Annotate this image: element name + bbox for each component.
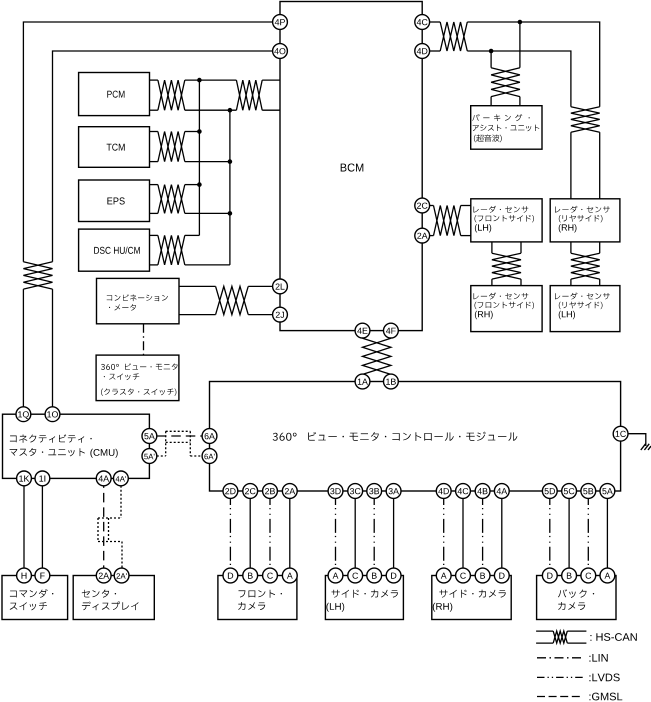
wire meter to 2J xyxy=(179,314,272,316)
wire 4D to right bus xyxy=(430,51,571,107)
box BCM xyxy=(280,2,422,331)
legend LIN symbol xyxy=(537,657,583,659)
box TCM xyxy=(79,127,150,168)
connector D back camera xyxy=(542,568,557,583)
connector 2L xyxy=(273,279,288,294)
connector 3B module xyxy=(367,484,382,499)
box combination meter xyxy=(97,278,180,323)
connector 4E xyxy=(355,323,370,338)
wire 4P branch lower xyxy=(22,289,24,414)
wire 2A to radar front LH xyxy=(430,235,471,237)
connector C side camera LH xyxy=(348,568,363,583)
connector B front camera xyxy=(243,568,258,583)
connector D side camera LH xyxy=(386,568,401,583)
connector 4A' CMU xyxy=(114,471,129,486)
connector H xyxy=(17,568,32,583)
wire TCM CAN-H xyxy=(150,131,200,133)
wire 1K to H xyxy=(23,478,25,575)
connector 4C module xyxy=(456,484,471,499)
box back camera xyxy=(537,576,616,620)
wire 4C to right bus xyxy=(430,22,600,107)
connector 4A CMU xyxy=(96,471,111,486)
connector 1O xyxy=(45,407,60,422)
legend LIN label xyxy=(589,654,607,662)
box radar sensor front side LH xyxy=(471,199,542,242)
wire 5A to back camera pin A (video/power) xyxy=(606,491,608,576)
wire EPS CAN-L xyxy=(150,212,230,214)
twisted pair radar front LH-RH xyxy=(492,253,521,279)
connector 2A module xyxy=(282,484,297,499)
wire 4C to side camera RH pin C (video/power) xyxy=(462,491,464,576)
wire 5C to back camera pin B (video/power) xyxy=(568,491,570,576)
wire EPS CAN-H xyxy=(150,184,200,186)
box radar sensor front side RH xyxy=(471,286,542,332)
connector 2C module xyxy=(243,484,258,499)
wire 1I to F xyxy=(41,478,43,575)
connector 4P xyxy=(273,15,288,30)
connector 1B xyxy=(384,374,399,389)
connector 2C BCM xyxy=(415,198,430,213)
twisted pair parking assist xyxy=(491,68,520,97)
wire meter to 2L xyxy=(179,285,272,287)
shield of GMSL CMU-display xyxy=(98,486,122,568)
connector C front camera xyxy=(263,568,278,583)
wire radar front pair xyxy=(492,242,521,286)
connector 5A module xyxy=(600,484,615,499)
legend HS-CAN symbol xyxy=(536,631,586,643)
wire 2B to front camera pin C (LVDS) xyxy=(269,491,271,576)
wire PCM CAN-L xyxy=(150,109,281,111)
connector B side camera RH xyxy=(475,568,490,583)
wire 2C to radar front LH xyxy=(430,205,471,207)
wire 1C to ground xyxy=(628,434,646,446)
box 360 view monitor control module xyxy=(210,382,621,492)
box 360 view monitor switch (cluster switch) xyxy=(96,355,179,401)
wire 5B to back camera pin C (LVDS) xyxy=(587,491,589,576)
wire CAN-L bus vertical xyxy=(229,110,231,265)
connector B back camera xyxy=(562,568,577,583)
connector C back camera xyxy=(581,568,596,583)
box parking assist unit (ultrasonic) xyxy=(471,106,542,150)
legend GMSL symbol xyxy=(537,696,583,698)
node EPS CAN-L junction xyxy=(228,211,233,216)
wire 4A to side camera RH pin D (video/power) xyxy=(501,491,503,576)
wire parking assist stubs xyxy=(491,97,520,106)
box DSC HU/CM xyxy=(79,229,150,271)
connector 3A module xyxy=(386,484,401,499)
wire LIN meter to cluster switch xyxy=(143,324,145,355)
connector 4A module xyxy=(494,484,509,499)
connector 4C xyxy=(415,15,430,30)
node TCM CAN-H junction xyxy=(197,129,202,134)
wire DSC CAN-H xyxy=(150,234,200,236)
connector A side camera RH xyxy=(436,568,451,583)
box center display xyxy=(73,576,154,620)
connector A back camera xyxy=(600,568,615,583)
wire GMSL 4A to 2A xyxy=(103,478,105,575)
wire 3B to side camera LH pin B (LVDS) xyxy=(373,491,375,576)
twisted pair BCM to module xyxy=(363,338,391,374)
wire CAN-H bus vertical xyxy=(198,80,200,235)
twisted pair 4C/4D xyxy=(440,22,467,51)
connector 1Q xyxy=(16,407,31,422)
legend HS-CAN label xyxy=(590,633,636,641)
node parking branch upper xyxy=(518,20,523,25)
box EPS xyxy=(79,180,150,222)
box side camera RH xyxy=(432,576,511,620)
connector B side camera LH xyxy=(367,568,382,583)
wire 4D to side camera RH pin A (LVDS) xyxy=(443,491,445,576)
box front camera xyxy=(218,576,297,620)
wire 2D to front camera pin D (LVDS) xyxy=(229,491,231,576)
wire to radar rear RH xyxy=(571,132,600,199)
connector 5D module xyxy=(542,484,557,499)
shield of GMSL CMU-module xyxy=(157,431,202,456)
connector 2D module xyxy=(223,484,238,499)
connector 4F xyxy=(384,323,399,338)
wire 2A to front camera pin A (video/power) xyxy=(289,491,291,576)
connector D front camera xyxy=(223,568,238,583)
wire parking assist branch A xyxy=(519,22,521,68)
connector 4D xyxy=(415,44,430,59)
connector 5C module xyxy=(562,484,577,499)
twisted pair combination meter xyxy=(216,286,249,314)
connector 4B module xyxy=(475,484,490,499)
twisted pair right down to radar rear RH xyxy=(571,107,600,133)
connector 5A CMU xyxy=(142,429,157,444)
twisted pair PCM to BCM xyxy=(236,80,262,110)
wire radar rear pair xyxy=(571,242,600,286)
wire 4O to CAN bus left top xyxy=(53,51,273,262)
node PCM CAN-H junction xyxy=(197,78,202,83)
connector 6A' module xyxy=(202,449,217,464)
wire 3D to side camera LH pin A (LVDS) xyxy=(335,491,337,576)
box radar sensor rear side RH xyxy=(550,199,620,242)
box CMU connectivity master unit xyxy=(3,414,150,478)
connector 5A' CMU xyxy=(142,449,157,464)
connector A side camera LH xyxy=(328,568,343,583)
twisted pair TCM xyxy=(158,132,185,162)
box PCM xyxy=(79,73,150,116)
wire 5D to back camera pin D (LVDS) xyxy=(549,491,551,576)
connector F xyxy=(35,568,50,583)
node PCM CAN-L junction xyxy=(228,108,233,113)
connector 4O xyxy=(273,44,288,59)
connector 4D module xyxy=(436,484,451,499)
connector D side camera RH xyxy=(494,568,509,583)
box side camera LH xyxy=(325,576,403,620)
connector 2A' display xyxy=(114,568,129,583)
connector C side camera RH xyxy=(456,568,471,583)
wire GMSL 5A to 6A xyxy=(157,435,202,437)
box commander switch xyxy=(2,576,68,620)
twisted pair radar rear RH-LH xyxy=(571,253,600,279)
node TCM CAN-L junction xyxy=(228,159,233,164)
connector 2B module xyxy=(263,484,278,499)
wire TCM CAN-L xyxy=(150,161,230,163)
wire 4B to side camera RH pin B (LVDS) xyxy=(482,491,484,576)
twisted pair PCM xyxy=(158,80,185,110)
connector 5B module xyxy=(581,484,596,499)
legend LVDS label xyxy=(589,674,619,682)
twisted pair HS-CAN left column xyxy=(23,262,52,289)
twisted pair EPS xyxy=(158,185,185,214)
connector 3C module xyxy=(348,484,363,499)
twisted pair DSC xyxy=(158,235,185,265)
connector 1A xyxy=(355,374,370,389)
ground symbol xyxy=(641,444,651,450)
connector 2A BCM xyxy=(415,228,430,243)
wire 2C to front camera pin B (video/power) xyxy=(249,491,251,576)
wire 4O branch lower xyxy=(52,289,54,414)
connector 1K xyxy=(17,471,32,486)
connector A front camera xyxy=(282,568,297,583)
connector 2J xyxy=(273,307,288,322)
connector 1I xyxy=(35,471,50,486)
connector 6A module xyxy=(202,429,217,444)
wire 3C to side camera LH pin C (video/power) xyxy=(354,491,356,576)
legend GMSL label xyxy=(589,693,622,701)
wire 4P to CAN bus left top xyxy=(23,22,272,262)
twisted pair 2C/2A xyxy=(434,206,461,236)
box radar sensor rear side LH xyxy=(550,286,620,332)
connector 2A display xyxy=(96,568,111,583)
node parking branch lower xyxy=(489,49,494,54)
legend LVDS symbol xyxy=(537,676,583,678)
wire 3A to side camera LH pin D (video/power) xyxy=(393,491,395,576)
wire DSC CAN-L xyxy=(150,264,230,266)
wire parking assist branch B xyxy=(490,51,492,68)
node EPS CAN-H junction xyxy=(197,182,202,187)
connector 1C xyxy=(613,426,628,441)
connector 3D module xyxy=(328,484,343,499)
wire PCM CAN-H xyxy=(150,79,281,81)
